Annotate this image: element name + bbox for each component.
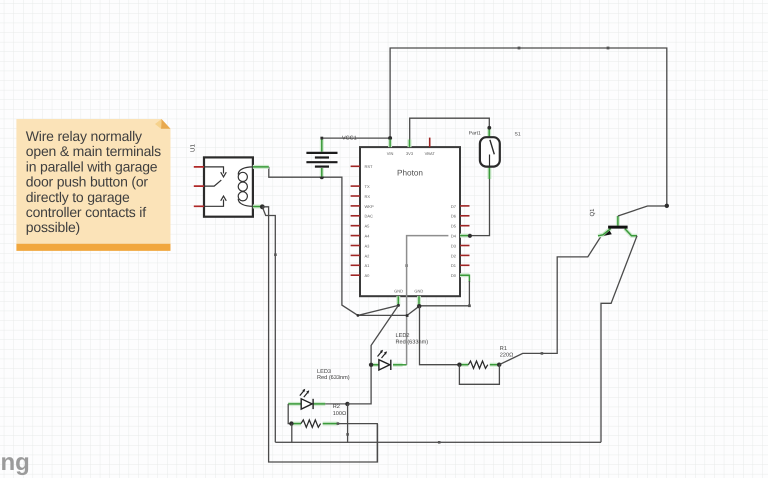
- node bendpoint on gray wire: [405, 264, 408, 267]
- svg-text:in parallel with garage: in parallel with garage: [26, 158, 158, 174]
- wire top rail net: [390, 48, 667, 206]
- node R1 right junction: [497, 363, 501, 367]
- wire relay to R2 right (outer loop): [262, 207, 377, 462]
- wire relay to collector rail (inner loop): [262, 207, 275, 442]
- pin 3V3 green stub: [408, 140, 412, 148]
- pin GND right green stub: [417, 296, 421, 305]
- switch S1: [480, 129, 500, 180]
- relay U1: [194, 157, 269, 216]
- svg-text:Red (633nm): Red (633nm): [317, 374, 350, 381]
- wire D4 gray crossing wire: [407, 236, 449, 365]
- wire LED3 junction to LED2 anode: [347, 367, 371, 404]
- svg-text:R2: R2: [333, 404, 340, 410]
- node bendpoint on emitter run: [541, 352, 544, 355]
- svg-text:R1: R1: [500, 346, 507, 352]
- node R1 left junction: [457, 363, 461, 367]
- wire LED3 anode to R2 left: [288, 404, 291, 424]
- svg-text:S1: S1: [515, 132, 521, 138]
- node LED2 anode junction: [369, 363, 373, 367]
- svg-text:controller contacts if: controller contacts if: [26, 204, 146, 220]
- wire battery minus to gnd bus: [322, 177, 358, 315]
- node bendpoint below R2: [346, 433, 349, 436]
- resistor R1 label: [500, 346, 514, 358]
- ic U2 left pin labels: [365, 164, 374, 278]
- transistor Q1 label: [589, 208, 596, 217]
- wire gnd bus: [358, 305, 419, 315]
- svg-text:Part1: Part1: [469, 130, 481, 136]
- node gnd bus bendpoints: [357, 304, 409, 317]
- node S1 top junction: [487, 126, 491, 130]
- svg-text:ng: ng: [1, 449, 30, 476]
- ic U2 Photon body: [360, 147, 460, 296]
- ic U2 bottom pin labels: [394, 288, 423, 293]
- note text: [26, 128, 161, 235]
- pin VIN green stub: [388, 140, 392, 148]
- svg-text:U1: U1: [190, 144, 197, 152]
- switch S1 Part1 labels: [469, 130, 521, 137]
- wire left GND to LED2 anode: [371, 305, 398, 364]
- watermark text ng: [1, 449, 30, 476]
- node LED3 right junction: [345, 402, 349, 406]
- ic U2 VBAT red stub: [429, 138, 431, 148]
- wire S1 bottom to D4: [470, 179, 490, 236]
- node GND right junction: [417, 304, 421, 308]
- svg-text:VBAT: VBAT: [425, 151, 436, 156]
- wire GND node to R1 left: [420, 306, 460, 365]
- wire 3V3 to S1 top: [410, 118, 490, 139]
- node relay coil bottom junction: [260, 204, 265, 209]
- svg-text:A3: A3: [365, 243, 371, 248]
- svg-text:D1: D1: [451, 263, 457, 268]
- svg-text:open & main terminals: open & main terminals: [26, 143, 161, 159]
- svg-text:directly to garage: directly to garage: [26, 189, 130, 205]
- svg-text:GND: GND: [394, 288, 403, 293]
- relay U1 label: [190, 144, 197, 152]
- ic U2 right pin labels: [451, 204, 457, 278]
- svg-text:VIN: VIN: [387, 151, 394, 156]
- svg-text:WKP: WKP: [365, 204, 374, 209]
- svg-text:RX: RX: [365, 194, 371, 199]
- svg-text:Wire relay normally: Wire relay normally: [26, 128, 142, 144]
- wire collector bottom rail: [275, 441, 601, 443]
- pin GND left green stub: [396, 296, 400, 305]
- ic U2 right red pins: [460, 206, 470, 265]
- svg-text:RST: RST: [365, 164, 374, 169]
- wire R1 right to emitter: [499, 236, 601, 365]
- svg-text:Photon: Photon: [397, 169, 423, 178]
- svg-text:possible): possible): [26, 219, 80, 235]
- resistor R2 label: [333, 404, 347, 417]
- svg-text:TX: TX: [365, 184, 370, 189]
- node bendpoint on bottom rail: [438, 441, 441, 444]
- svg-text:DAC: DAC: [365, 214, 374, 219]
- wire VCC1 net: [322, 137, 390, 139]
- ic U2 top pin labels: [387, 151, 436, 156]
- battery BAT1: [306, 140, 337, 177]
- node VCC1 label: [342, 136, 357, 142]
- led LED2 label: [396, 333, 429, 345]
- wire R2 left down to bottom rail: [291, 424, 293, 443]
- svg-text:D2: D2: [451, 253, 457, 258]
- node bendpoint on top rail: [518, 47, 610, 50]
- svg-text:A5: A5: [365, 224, 371, 229]
- node bendpoint D0 drop: [468, 304, 471, 307]
- svg-text:LED2: LED2: [396, 333, 410, 339]
- wire R1 bypass loop: [459, 365, 499, 385]
- svg-text:A4: A4: [365, 234, 371, 239]
- svg-text:LED3: LED3: [317, 369, 331, 375]
- transistor Q1: [598, 216, 637, 236]
- resistor R2: [291, 420, 338, 427]
- wire base to rail: [618, 206, 667, 216]
- led LED2: [371, 350, 407, 370]
- svg-text:220Ω: 220Ω: [500, 352, 514, 358]
- svg-text:D4: D4: [451, 234, 457, 239]
- note sticky annotation: [16, 119, 170, 251]
- svg-text:3V3: 3V3: [406, 151, 414, 156]
- svg-text:D7: D7: [451, 204, 457, 209]
- svg-text:Q1: Q1: [589, 208, 596, 217]
- led LED3 label: [317, 369, 350, 381]
- node base rail junction: [665, 204, 669, 208]
- node battery minus junction: [320, 175, 324, 179]
- resistor R1: [459, 361, 499, 368]
- svg-text:D5: D5: [451, 224, 457, 229]
- svg-text:door push button (or: door push button (or: [26, 174, 149, 190]
- svg-text:D3: D3: [451, 243, 457, 248]
- node bendpoint on relay drop: [274, 253, 277, 256]
- svg-text:100Ω: 100Ω: [333, 411, 347, 417]
- svg-text:D0: D0: [451, 273, 457, 278]
- wire LED3 junction down to bottom rail: [347, 404, 349, 442]
- svg-text:D6: D6: [451, 214, 457, 219]
- ic U2 left red pins: [351, 166, 360, 275]
- svg-text:A2: A2: [365, 253, 371, 258]
- svg-text:A1: A1: [365, 263, 371, 268]
- wire LED3 cathode to junction: [325, 403, 347, 405]
- wire collector down: [601, 236, 637, 442]
- node bendpoint R2 right: [337, 422, 340, 425]
- pin D4 green stub: [460, 234, 470, 238]
- led LED3: [288, 389, 325, 409]
- svg-text:Red (633nm): Red (633nm): [396, 338, 429, 345]
- node D4 junction: [468, 234, 472, 238]
- node VCC1 junction: [320, 136, 392, 140]
- wire battery minus to relay coil: [269, 167, 322, 177]
- pin D0 green stub: [460, 275, 469, 282]
- svg-text:A0: A0: [365, 273, 371, 278]
- wire R2 right to outer loop: [338, 424, 377, 462]
- svg-text:GND: GND: [414, 288, 423, 293]
- wire D0 to GND node: [419, 281, 469, 306]
- svg-text:VCC1: VCC1: [342, 136, 357, 142]
- node R2 left junction: [289, 421, 293, 425]
